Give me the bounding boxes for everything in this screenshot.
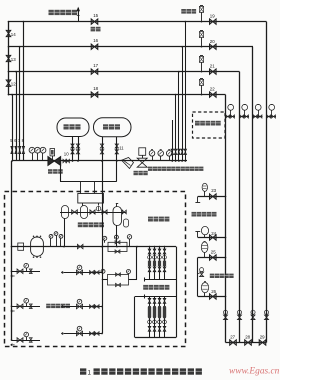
flow transmitter [152, 156, 154, 161]
svg-text:7: 7 [18, 138, 21, 143]
valve 25 [210, 255, 217, 260]
compressor box legs [82, 203, 84, 206]
figure caption: Fig.1 gas pipeline working-condition simulation test system process flow [80, 368, 86, 374]
svg-text:12: 12 [11, 82, 16, 87]
label air compressor station (kong qi ya suo zhan) [78, 222, 83, 227]
valve 15 ball valve on line1 [91, 19, 98, 24]
svg-text:20: 20 [210, 39, 215, 44]
valve 12 (on riser) [6, 80, 11, 86]
air header above station [60, 181, 117, 183]
pressure regulator with actuator (tiao ya qi) [139, 148, 146, 156]
pressure gauge PG3 [42, 153, 44, 161]
tank2 right leg with valve 11 [116, 137, 118, 161]
comb line 2 lower [154, 297, 156, 338]
train valve C [102, 210, 107, 214]
tank1 left leg [72, 137, 74, 162]
valve 8 [22, 146, 24, 153]
svg-text:28: 28 [245, 335, 250, 340]
wire right column 1 [225, 95, 227, 343]
air header riser left [60, 161, 62, 181]
wire descender line4 to manifold [12, 95, 14, 161]
air filter capsule A [62, 206, 69, 219]
gauge and twin valves on column 4 [267, 116, 277, 118]
junction nodes [8, 21, 10, 23]
wire descender line3 to manifold [16, 72, 18, 161]
valve pair on tank1 left leg [71, 144, 74, 154]
valve 27 [230, 340, 237, 345]
check valves on tank2 left leg (descends into station) [102, 137, 104, 161]
wire bottom right manifold [226, 342, 267, 344]
safety relief valve on column 1 [223, 310, 227, 314]
gauge and twin valves on column 2 [240, 116, 250, 118]
wire pipe-line-3 [9, 71, 240, 73]
valve 21 on line3 [210, 69, 217, 74]
instrument square box [52, 156, 54, 161]
compressor train line [60, 212, 127, 214]
train sight glass [98, 207, 100, 212]
dispatch control room dashed box (diao du kong zhi shi) [193, 112, 226, 138]
train valve D [122, 210, 126, 214]
label dispatch control room [195, 121, 200, 126]
svg-text:25: 25 [211, 250, 216, 255]
safety relief valve on column 4 [264, 310, 268, 314]
valve 26 [210, 294, 217, 299]
wire tank2 drain column (x102) into hall [102, 161, 104, 334]
safety relief valve on column 2 [237, 310, 241, 314]
tank medium pressure (zhong ya guan) [57, 118, 89, 137]
wire interior left vertical [11, 161, 13, 340]
relief valve on connector [200, 268, 204, 272]
comb line 1 upper [149, 247, 151, 280]
low pressure test rack frame [135, 296, 177, 298]
label low pressure test area (di ya shi yan qu) [143, 285, 148, 290]
wire comb left loop [134, 297, 136, 338]
test branch row1 left [12, 271, 41, 273]
valve 24 [210, 235, 217, 240]
comb line 2 upper [154, 247, 156, 280]
label buried pipe test area (mai tu shi yan qu) [210, 274, 214, 278]
wire descender line2 to manifold [19, 47, 21, 161]
comb line 4 lower [164, 297, 166, 338]
wire pipe-line-1 (top test line) [9, 21, 267, 23]
dryer drain to main line [116, 226, 118, 247]
air receiver tank [31, 237, 44, 256]
comb line 4 upper [164, 247, 166, 280]
svg-text:29: 29 [260, 335, 265, 340]
gauge and twin valves on column 1 [226, 116, 236, 118]
gauge and twin valves on column 3 [253, 116, 263, 118]
valve 17 on line3 [91, 69, 98, 74]
valve 23 [210, 194, 217, 199]
station gauges G2 [56, 236, 58, 247]
svg-text:18: 18 [93, 86, 98, 91]
valve 6 [15, 146, 17, 153]
vent arrow line 1 [78, 8, 80, 22]
check valves on tank1 right leg [78, 137, 80, 162]
svg-text:13: 13 [11, 57, 16, 62]
test branch row1 mid [64, 272, 102, 274]
valve 19 on line1 [210, 19, 217, 24]
valve 14 (on riser) [6, 30, 11, 36]
wire descender line1 to manifold [23, 22, 25, 161]
svg-text:21: 21 [210, 64, 215, 69]
wire drop to metering bypass 2 [136, 247, 138, 280]
svg-text:22: 22 [210, 87, 215, 92]
gauge right of bypass [129, 239, 131, 247]
solenoid valve above line3 [201, 62, 203, 71]
tank high pressure (gao ya guan) [94, 118, 132, 137]
gas filter / strainer before regulator [122, 158, 134, 169]
capsule A drain to main line [64, 219, 66, 247]
label ball valve (qiu fa) [91, 27, 96, 32]
svg-text:1: 1 [88, 369, 92, 376]
valve on main line [77, 244, 83, 249]
svg-text:23: 23 [211, 188, 216, 193]
solenoid valve above line1 [201, 12, 203, 21]
valve 28 [245, 340, 252, 345]
wire gas manifold [12, 160, 187, 162]
air compressor unit box [78, 194, 104, 204]
valve 18 on line4 [91, 92, 98, 97]
branch D: gauge 26 [198, 296, 226, 298]
label regulator (tiao ya qi) [134, 171, 138, 175]
solenoid valve above line2 [201, 38, 203, 47]
wire left riser [8, 22, 10, 95]
wire right column 2 [239, 72, 241, 343]
metering bypass 2 [129, 279, 138, 281]
label flow pressure temperature transmitters [148, 167, 152, 171]
valve 16 on line2 [91, 44, 98, 49]
branch C: gauge 25 [198, 257, 226, 259]
wire pipe-line-2 [9, 46, 254, 48]
air header riser right (valve11 leg extension) [116, 161, 118, 181]
test branch row2 left [12, 306, 41, 308]
wire interior main air line [12, 246, 177, 248]
wire branch C-D connector [197, 258, 199, 297]
cluster isolation valves [171, 149, 174, 154]
label medium pressure test area (zhong ya shi yan qu) [46, 304, 50, 308]
branch A high pressure: gauge 23 [198, 196, 226, 198]
svg-text:24: 24 [211, 231, 216, 236]
condensate pot [124, 219, 129, 227]
valve 10 electric valve [48, 157, 61, 166]
valve 29 [259, 340, 266, 345]
test branch row2 mid [64, 306, 102, 308]
svg-text:15: 15 [93, 13, 98, 18]
label electric valve (dian dong fa) [48, 169, 53, 174]
station gauges G1 [50, 238, 52, 246]
svg-text:27: 27 [230, 335, 235, 340]
test branch row3 mid [64, 333, 102, 335]
test branch row3 left [12, 340, 41, 342]
svg-text:17: 17 [93, 63, 98, 68]
valve 20 on line2 [210, 44, 217, 49]
pressure gauge PG2 [37, 153, 39, 161]
label manual vent valve (shou dong fang san fa) [49, 10, 54, 15]
station gauges G3 [60, 238, 62, 246]
air dryer capsule [113, 207, 122, 226]
svg-text:16: 16 [93, 38, 98, 43]
wire comb right vertical [176, 247, 178, 338]
label solenoid valve (dian ci fa) [181, 9, 186, 14]
wire right column 3 [252, 47, 254, 343]
twin small valves right of valve 10 [63, 159, 66, 162]
valve 13 (on riser) [6, 55, 11, 61]
comb line 3 upper [159, 247, 161, 280]
test hall dashed enclosure [5, 192, 186, 347]
svg-text:8: 8 [22, 138, 25, 143]
svg-text:11: 11 [119, 146, 124, 151]
solenoid valve above line4 [201, 85, 203, 94]
comb line 1 lower [149, 297, 151, 338]
safety relief valve on column 3 [251, 310, 255, 314]
svg-text:19: 19 [210, 14, 215, 19]
branch B: gauge 24 [198, 237, 226, 239]
pressure gauge PG1 [32, 153, 34, 161]
comb line 3 lower [159, 297, 161, 338]
train valve B [90, 210, 95, 214]
label high pressure test area (gao ya shi yan qu) [192, 212, 197, 217]
metering bypass 1 [108, 242, 127, 251]
temperature transmitter [169, 156, 171, 161]
valve 5 [11, 146, 13, 153]
wire right column 4 [266, 22, 268, 343]
svg-text:www.Egas.cn: www.Egas.cn [229, 367, 280, 377]
svg-text:26: 26 [211, 289, 216, 294]
wire pipe-line-4 [9, 94, 226, 96]
pressure transmitter [160, 156, 162, 161]
inline filter box [18, 243, 24, 250]
riser cluster from manifold to test lines [172, 120, 174, 161]
valve 22 on line4 [210, 92, 217, 97]
valve 7 [19, 146, 21, 153]
wire comb bottom header [135, 337, 176, 339]
air filter capsule B [81, 206, 88, 219]
svg-text:14: 14 [11, 32, 16, 37]
label inside detection room (jian ce shi nei) [148, 217, 153, 222]
train valve A [72, 210, 78, 215]
svg-text:10: 10 [64, 152, 69, 157]
